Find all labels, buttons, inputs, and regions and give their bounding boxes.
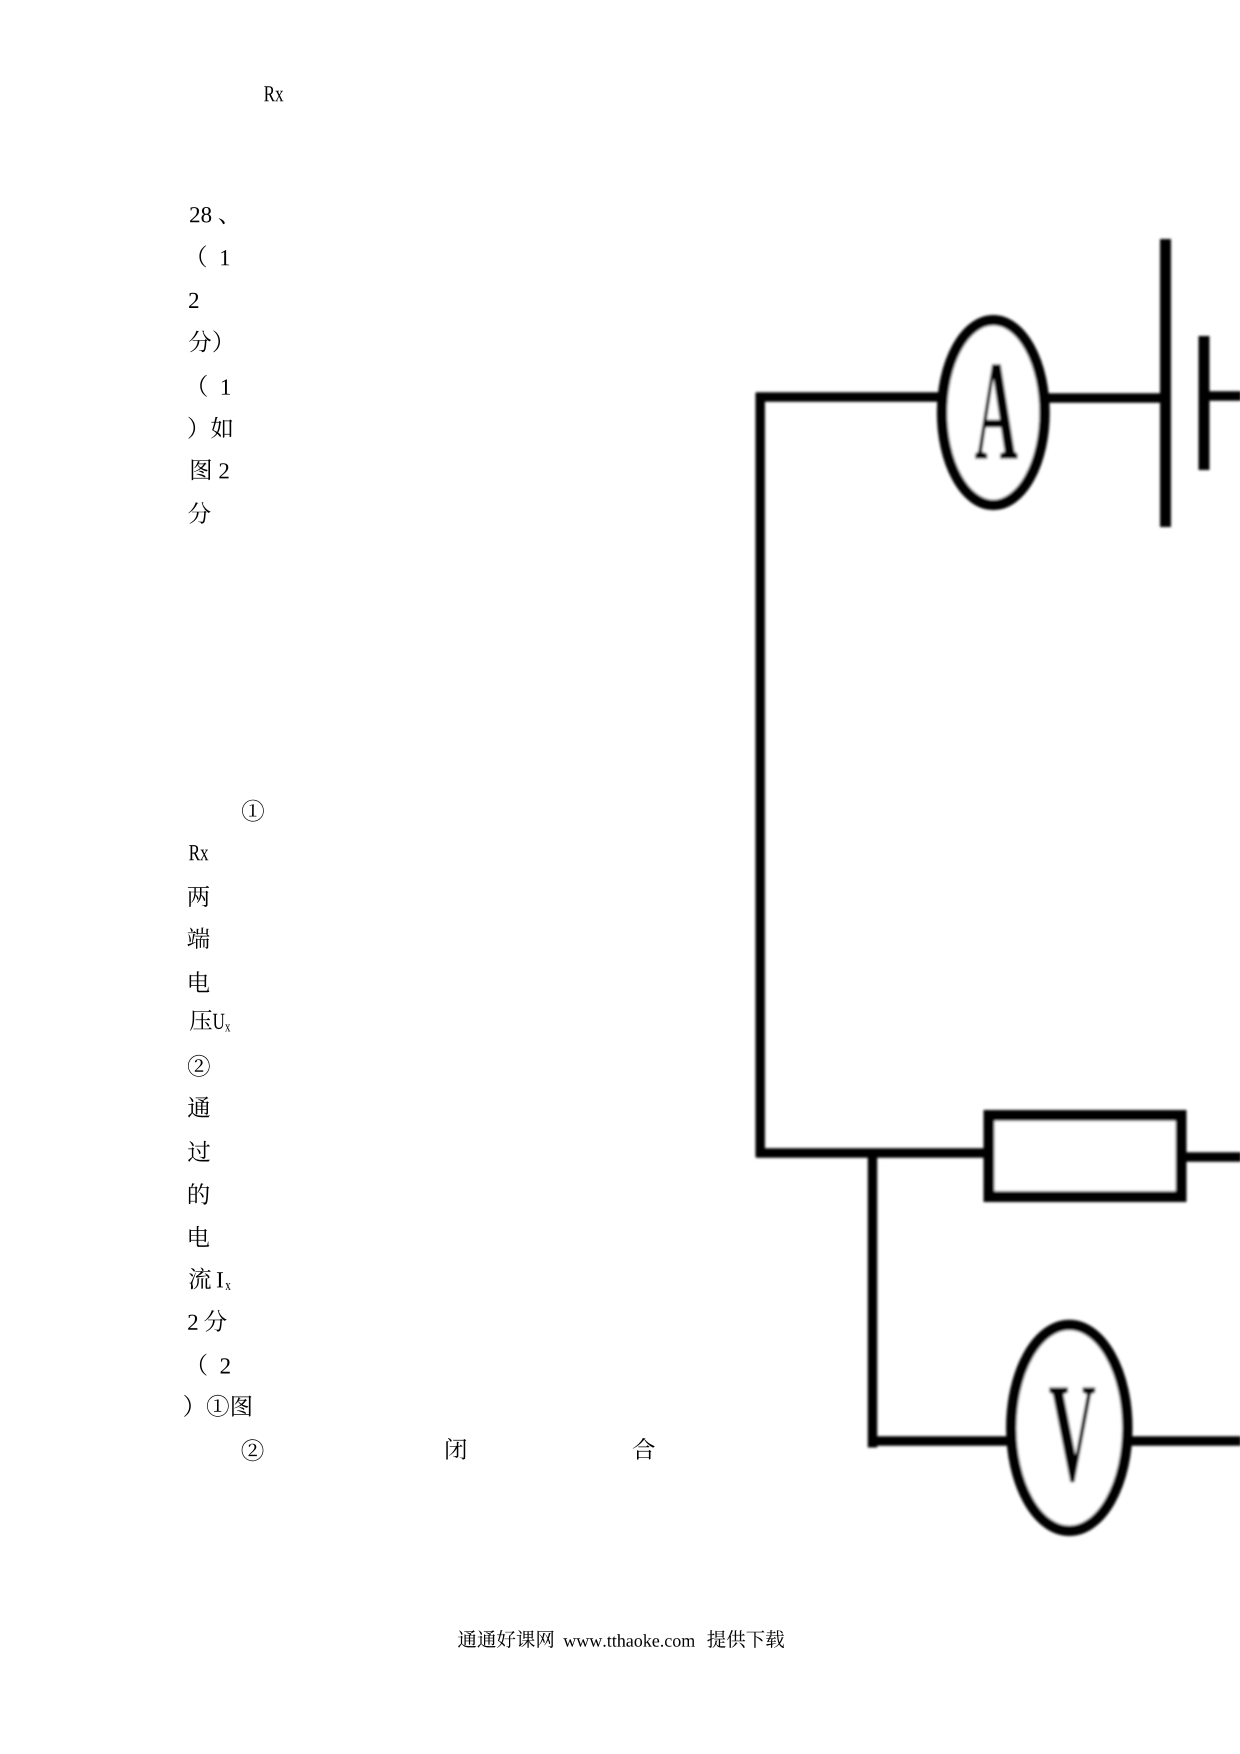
text （1 line a [199,245,229,267]
footer 通通好课网 [458,1630,554,1648]
wire resistor to right edge [1180,1152,1240,1162]
ammeter label A [975,364,1017,458]
text 图2 [192,459,229,480]
text Rx (column) [189,845,208,860]
wire branch vertical (junction to voltmeter) [868,1149,878,1448]
wire top-left horizontal (node to ammeter) [756,392,942,402]
text 压Ux [190,1010,230,1032]
footer www.tthaoke.com [563,1634,695,1647]
text 2 [189,293,198,308]
text （2 [200,1354,230,1376]
text 的 [189,1183,209,1205]
text 通 [188,1097,210,1118]
text ）①图 [184,1395,251,1417]
text 2分 [188,1310,226,1332]
text ）如 [188,417,232,439]
wire voltmeter horizontal [868,1436,1240,1446]
text 过 [188,1141,210,1162]
text 闭 [446,1438,466,1460]
resistor Rx box [989,1116,1181,1197]
text 电 b [190,1226,210,1247]
text ② marker a [188,1055,210,1077]
wire bottom horizontal (left node to resistor) [756,1148,990,1158]
text 分 [188,502,210,524]
text ① marker [242,800,264,822]
text 端 [187,928,209,949]
text 合 [633,1438,655,1460]
voltmeter label V [1049,1387,1095,1482]
voltmeter U2 circle [1011,1325,1127,1531]
text （1 line b [200,375,230,397]
battery long plate (+) [1160,239,1171,527]
battery short plate (-) [1199,336,1210,470]
footer 提供下载 [707,1630,784,1648]
text 电 a [190,971,210,992]
text Rx (top label) [264,86,283,101]
wire left vertical [755,393,765,1157]
text 分） [189,330,220,352]
text 28、 [190,207,225,224]
text ② marker b [242,1439,264,1461]
ammeter U1 circle [942,320,1044,505]
text 流Ix [189,1268,231,1290]
text 两 [188,886,209,907]
wire battery to right edge [1204,391,1240,401]
wire ammeter to battery [1045,393,1163,403]
